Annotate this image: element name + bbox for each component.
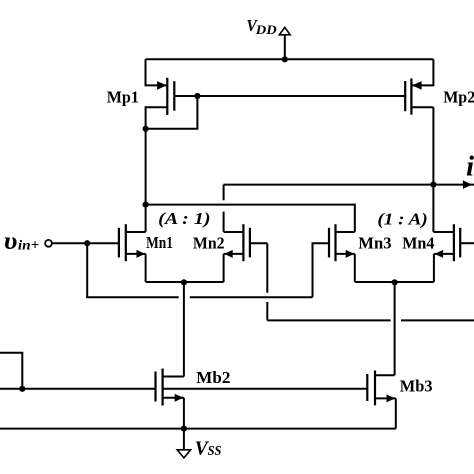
wire Mn2 gate cross-coupling (hops over vin wire and Mb3 riser) [267,243,474,320]
wire vin+ down-cross to Mn3 gate (hops over Mb2 drain riser) [87,243,329,297]
wire output arrowhead [463,180,472,189]
wire right tail to Mb3 drain [394,282,396,375]
node mirror junction [143,202,149,208]
terminal vin+ [45,240,52,247]
ground VSS symbol [177,429,190,458]
svg-text:Mb3: Mb3 [400,376,433,395]
svg-text:SS: SS [208,444,222,459]
node left tail junction [181,279,187,285]
transistor Mn3 [329,224,355,261]
transistor Mb3 [367,371,396,406]
svg-text:(1 : A): (1 : A) [377,209,427,228]
wire output current line [224,184,474,186]
wire vin+ to Mn1 gate [52,242,119,244]
wire Mp1 drain to Mn1 drain column [145,129,147,232]
wire bias line Mb2 to Mb3 gate [163,388,368,390]
svg-text:Mb2: Mb2 [196,368,230,387]
svg-text:+: + [31,238,40,254]
wire Mn1 source to tail rail [145,254,147,282]
power VDD symbol [279,27,290,59]
wire Mp1-Mp2 gate line [174,95,405,97]
transistor Mn4 [433,224,474,261]
transistor Mn1 [119,224,146,261]
svg-text:Mp2: Mp2 [443,88,474,107]
wire Mn4 source to tail rail [433,254,435,282]
node VSS junction [181,426,187,432]
label vin+ [4,228,39,255]
wire VDD rail [146,58,434,60]
svg-text:Mp1: Mp1 [107,88,139,107]
wire Mb3 source to VSS rail [395,398,397,428]
wire Mn2 source to tail rail [223,254,225,282]
svg-text:DD: DD [255,22,278,37]
wire left tail to Mb2 drain [183,282,185,377]
node output junction [430,182,436,188]
svg-text:i: i [466,151,474,183]
svg-text:in: in [18,238,31,253]
transistor Mb2 [156,369,184,406]
wire mirror node to Mn3 drain [146,205,355,232]
wire left pair tail rail [146,281,224,283]
label VSS [195,437,222,459]
wire Mp1 diode connection [146,96,198,129]
node vin+ junction [84,240,90,246]
wire bias line to Mb2 gate [0,388,156,390]
wire Mb2 source to VSS rail [183,398,185,429]
wire Mn3 source to tail rail [354,254,356,282]
wire Mn2 drain riser (hops over mirror wire) [223,185,225,232]
transistor Mp1 [146,59,175,129]
wire right pair tail rail [355,281,434,283]
node right tail junction [392,279,398,285]
svg-text:υ: υ [4,228,18,255]
wire VSS rail [0,428,396,430]
node Mp1 gate-drain junction [194,93,200,99]
svg-text:(A : 1): (A : 1) [158,209,210,228]
svg-text:Mn1: Mn1 [146,233,173,252]
svg-text:Mn2: Mn2 [193,234,225,253]
wire bias stub upper left [0,353,22,389]
node Mp1 drain junction [143,126,149,132]
transistor Mp2 [405,59,433,114]
node VDD-rail junction [282,56,288,62]
wire Mp2 drain to output node and Mn4 drain [432,107,434,232]
svg-text:Mn3: Mn3 [358,234,391,253]
svg-text:Mn4: Mn4 [402,234,435,253]
node bias junction [19,386,25,392]
transistor Mn2 [224,224,268,261]
label VDD [246,16,277,37]
